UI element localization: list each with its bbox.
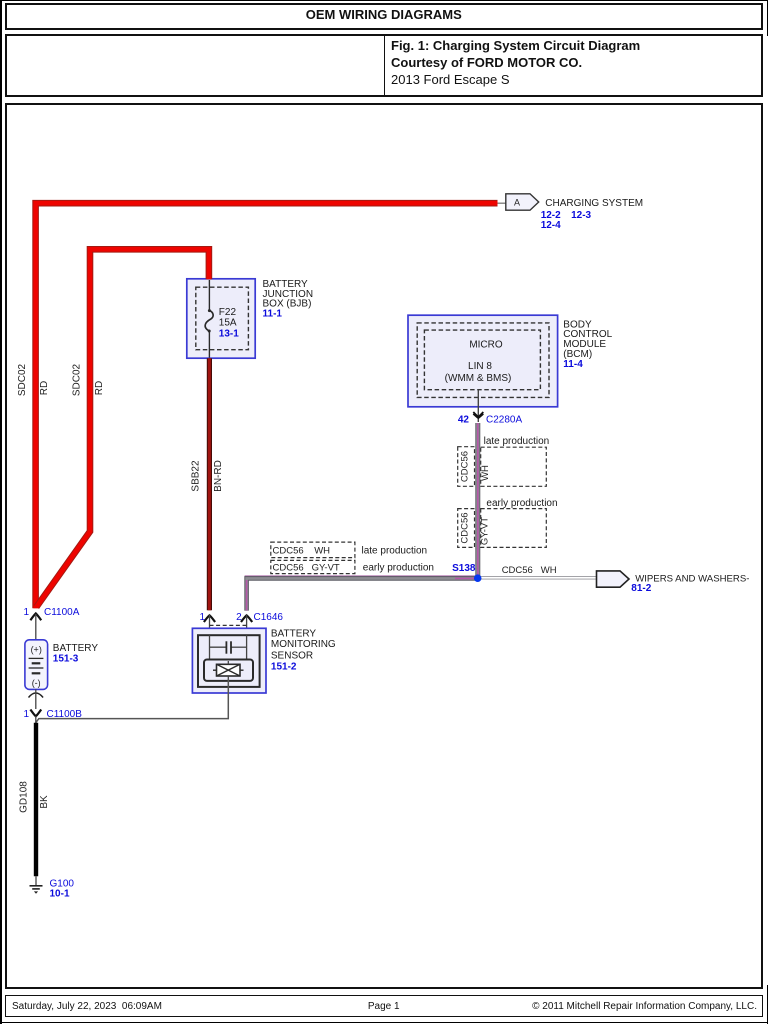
capacitor element [210,646,226,648]
dashed box GY-VT (early) [481,509,547,548]
svg-text:151-2: 151-2 [271,662,297,673]
svg-text:(-): (-) [32,678,41,688]
svg-text:81-2: 81-2 [631,583,651,594]
charging system label [541,198,643,231]
svg-text:CDC56 WH: CDC56 WH [502,565,557,576]
svg-text:MICRO: MICRO [469,339,503,350]
wire sensor to battery ground node [36,679,228,723]
svg-text:CDC56: CDC56 [460,451,471,482]
svg-text:BN-RD: BN-RD [213,460,224,492]
connector C2280A pin 42 [458,390,523,426]
svg-text:RD: RD [39,381,50,395]
svg-text:SDC02: SDC02 [17,363,28,396]
svg-text:early production: early production [486,498,557,509]
svg-text:1: 1 [23,607,29,618]
fuse F22 15A value label [219,307,239,339]
connector C1100A [23,607,79,640]
svg-text:GY-VT: GY-VT [480,517,491,545]
BCM label [563,319,612,370]
title box OEM WIRING DIAGRAMS [5,3,763,30]
svg-text:C1100A: C1100A [44,607,80,618]
svg-text:(WMM & BMS): (WMM & BMS) [445,373,512,384]
svg-text:WIPERS AND WASHERS-: WIPERS AND WASHERS- [635,573,749,584]
svg-text:CDC56 GY-VT: CDC56 GY-VT [273,563,340,574]
svg-text:1: 1 [23,709,29,720]
battery 151-3 [25,640,48,690]
svg-text:CHARGING SYSTEM: CHARGING SYSTEM [545,198,643,209]
svg-text:1: 1 [199,612,205,623]
svg-text:42: 42 [458,414,470,425]
wire GY-VT horizontal to sensor [245,576,478,611]
svg-text:SDC02: SDC02 [71,363,82,396]
svg-text:10-1: 10-1 [50,889,70,900]
wire GD108 BK [34,723,38,886]
dashed box CDC56 WH (late, near sensor) [271,542,355,558]
dashed box WH (late) [481,447,547,486]
battery junction box BJB [187,279,255,358]
page top border [0,0,768,1]
svg-text:15A: 15A [219,317,237,328]
svg-text:late production: late production [484,436,550,447]
svg-text:13-1: 13-1 [219,328,239,339]
svg-text:C2280A: C2280A [486,414,522,425]
svg-text:early production: early production [363,563,434,574]
svg-text:BATTERY: BATTERY [271,629,317,640]
wire SBB22 BN-RD [207,358,212,610]
svg-text:LIN 8: LIN 8 [468,361,492,372]
fuse F22 element [205,280,213,358]
svg-text:RD: RD [94,381,105,395]
svg-text:CDC56 WH: CDC56 WH [273,546,331,557]
svg-text:2: 2 [236,612,242,623]
svg-text:BATTERY: BATTERY [53,643,99,654]
svg-text:C1100B: C1100B [47,709,83,720]
svg-text:CDC56: CDC56 [460,512,471,543]
footer box [5,995,763,1017]
battery monitoring sensor label [271,629,336,673]
connector C1646 pins 1 and 2 [199,612,283,628]
off-page connector wipers [597,571,630,587]
svg-text:S138: S138 [452,563,476,574]
svg-text:151-3: 151-3 [53,653,79,664]
wire CDC56 WH to wipers [478,576,597,579]
page right border segments [767,0,768,36]
svg-text:SENSOR: SENSOR [271,650,313,661]
dashed box CDC56 (early) [458,509,475,548]
BJB label [263,279,314,319]
shunt housing [204,660,253,681]
shunt element box with X [217,664,241,676]
svg-text:GD108: GD108 [19,781,30,813]
svg-text:12-4: 12-4 [541,220,561,231]
connector A link line [498,202,507,204]
page bottom border [0,1022,768,1024]
svg-text:late production: late production [362,546,428,557]
dashed box CDC56 (late) [458,447,475,487]
splice S138 [452,563,481,582]
pin columns [209,635,211,659]
svg-text:11-1: 11-1 [263,308,283,319]
battery monitoring sensor [192,628,266,693]
svg-text:(+): (+) [31,645,42,655]
page left border [0,0,2,1024]
dashed box CDC56 GY-VT (early, near sensor) [271,560,355,573]
off-page connector A [506,194,539,210]
wire SDC02 RD inner loop [36,249,209,607]
wire LIN GY-VT vertical [475,423,480,578]
wire SDC02 RD outer loop [36,203,498,608]
battery label [53,643,99,665]
svg-text:SBB22: SBB22 [191,460,202,492]
svg-text:BK: BK [39,795,50,809]
ground G100 [30,879,75,900]
svg-text:12-3: 12-3 [571,210,591,221]
caption column divider [384,34,386,97]
svg-text:C1646: C1646 [254,612,284,623]
svg-text:A: A [514,198,520,208]
svg-text:F22: F22 [219,307,237,318]
wipers and washers label [631,573,749,594]
svg-text:MONITORING: MONITORING [271,639,336,650]
svg-text:WH: WH [480,465,491,481]
svg-text:11-4: 11-4 [563,359,583,370]
connector C1100B [23,689,82,723]
figure caption box [5,34,763,97]
body control module BCM [408,315,558,407]
